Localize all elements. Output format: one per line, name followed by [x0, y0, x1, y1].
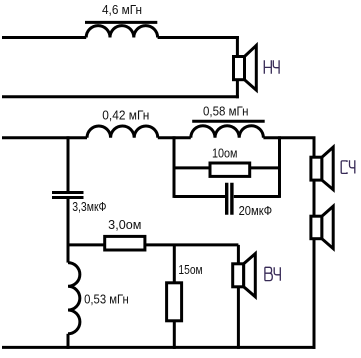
wire network to СЧ corner and down: [263, 138, 314, 349]
wire 15ом branch top: [173, 245, 176, 283]
speaker СЧ second driver: [311, 206, 333, 248]
wire capacitor row right: [234, 195, 280, 198]
wire L4 to bottom rail: [67, 334, 70, 349]
svg-text:4,6 мГн: 4,6 мГн: [102, 3, 142, 17]
svg-text:20мкФ: 20мкФ: [239, 204, 273, 218]
wire inductor L1 to node НЧ: [158, 36, 239, 39]
svg-text:3,3мкФ: 3,3мкФ: [72, 200, 106, 214]
wire tweeter row right: [145, 243, 239, 246]
resistor R1 3,0ом: [105, 236, 145, 250]
capacitor C2 20мкФ plates: [227, 183, 232, 215]
capacitor C1 3,3мкФ plates: [52, 193, 84, 198]
wire ВЧ speaker vertical: [237, 245, 240, 349]
overline for L3 value: [192, 120, 265, 123]
svg-text:0,58 мГн: 0,58 мГн: [203, 104, 249, 118]
speaker СЧ symbol: [311, 147, 333, 190]
wire top rail to woofer: [2, 36, 86, 39]
overline for L1 value: [85, 21, 157, 24]
inductor L1 4,6 мГн: [86, 26, 157, 38]
wire mid rail left segment: [2, 136, 87, 139]
svg-text:0,53 мГн: 0,53 мГн: [84, 293, 129, 307]
inductor L2 0,42 мГн: [87, 126, 158, 138]
wire network left vertical: [173, 136, 176, 198]
resistor R3 15ом: [167, 283, 182, 321]
wire resistor row left: [174, 166, 210, 169]
svg-text:3,0ом: 3,0ом: [108, 218, 141, 232]
speaker НЧ symbol: [234, 45, 257, 90]
wire bottom return of НЧ circuit: [2, 95, 239, 98]
svg-text:15ом: 15ом: [178, 263, 202, 277]
wire 15ом branch bottom: [173, 321, 176, 349]
inductor L4 0,53 мГн vertical: [68, 263, 80, 334]
wire resistor row right: [250, 166, 280, 169]
wire C1 down to coil L4: [67, 199, 70, 263]
node label СЧ: [341, 160, 355, 173]
resistor R2 10ом: [210, 163, 250, 176]
node label НЧ: [264, 60, 279, 73]
wire L2 to parallel network: [158, 136, 191, 139]
wire bottom rail: [2, 346, 316, 349]
svg-text:10ом: 10ом: [212, 146, 238, 160]
wire capacitor row left: [174, 195, 225, 198]
svg-text:0,42 мГн: 0,42 мГн: [102, 108, 149, 122]
inductor L3 0,58 мГн: [191, 126, 264, 138]
wire network right vertical: [278, 136, 281, 198]
wire НЧ speaker vertical: [236, 36, 239, 98]
node label ВЧ: [265, 267, 280, 280]
wire junction mid rail down to C1: [67, 136, 70, 191]
wire tweeter row left: [68, 243, 105, 246]
speaker ВЧ symbol: [233, 254, 256, 297]
